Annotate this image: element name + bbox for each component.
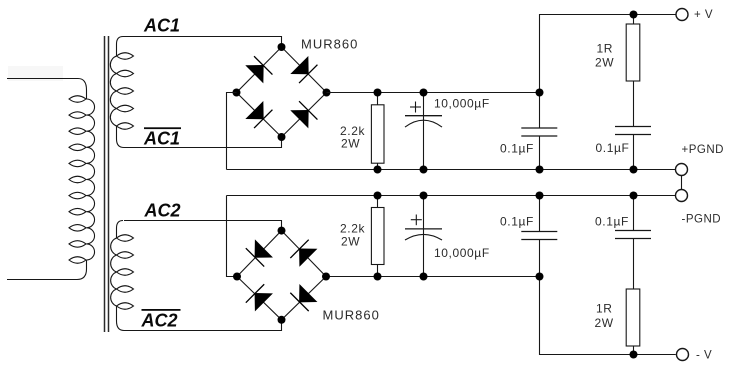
- diode D1 bridge1 top-left: [245, 56, 272, 83]
- svg-text:2W: 2W: [595, 316, 614, 330]
- junction dot R1 bottom: [374, 166, 382, 174]
- svg-text:2W: 2W: [341, 136, 360, 150]
- svg-text:0.1µF: 0.1µF: [500, 142, 534, 156]
- wire AC1-bar: [124, 137, 282, 148]
- junction dot C1 top: [420, 89, 428, 97]
- wire AC2-bar: [124, 320, 282, 331]
- svg-text:2W: 2W: [595, 56, 614, 70]
- wire positive rail section 1: [327, 92, 540, 94]
- svg-text:AC2: AC2: [144, 201, 181, 221]
- svg-text:1R: 1R: [597, 42, 614, 56]
- junction dot bridge2 left node: [233, 273, 241, 281]
- diode D6 bridge2 top-right: [290, 240, 317, 267]
- wire AC1: [123, 37, 282, 48]
- junction dot C5 bottom: [536, 273, 544, 281]
- svg-text:+ V: + V: [694, 9, 713, 21]
- diode D7 bridge2 bottom-left: [246, 284, 273, 311]
- wire bridge2 positive to -PGND rail: [227, 196, 238, 277]
- capacitor C3 0.1uF top-right: [615, 127, 651, 170]
- junction dot C5 top: [536, 192, 544, 200]
- junction dot R2 top: [374, 192, 382, 200]
- junction dot bridge2 top node: [278, 227, 286, 235]
- junction dot bridge1 left node: [233, 89, 241, 97]
- capacitor C6 0.1uF bottom-right: [615, 196, 651, 290]
- svg-text:0.1µF: 0.1µF: [595, 215, 629, 229]
- junction dot bridge1 top node: [278, 43, 286, 51]
- svg-text:AC2: AC2: [141, 311, 178, 331]
- transformer secondary winding S2: [111, 221, 134, 331]
- svg-text:0.1µF: 0.1µF: [500, 215, 534, 229]
- wire AC2: [124, 221, 282, 231]
- wire PGND link: [681, 176, 683, 190]
- junction dot C2 bottom: [536, 166, 544, 174]
- junction dot C4 bottom: [420, 273, 428, 281]
- label R1 2.2k 2W: [340, 124, 365, 150]
- svg-text:0.1µF: 0.1µF: [596, 141, 630, 155]
- junction dot bridge2 bottom node: [278, 316, 286, 324]
- label R4 1R 2W: [595, 302, 614, 331]
- capacitor C2 0.1uF top-left: [521, 93, 557, 170]
- transformer primary winding: [7, 79, 95, 280]
- bridge rectifier 1 frame: [237, 47, 327, 137]
- svg-text:AC1: AC1: [143, 128, 180, 148]
- svg-text:-PGND: -PGND: [682, 213, 722, 225]
- svg-text:10,000µF: 10,000µF: [434, 97, 490, 111]
- wire +V rail and drop: [540, 15, 676, 93]
- svg-text:- V: - V: [696, 350, 712, 362]
- junction dot C4 top: [420, 192, 428, 200]
- svg-text:2.2k: 2.2k: [340, 222, 365, 236]
- capacitor C1 10000uF: [405, 93, 442, 170]
- svg-text:MUR860: MUR860: [323, 308, 380, 323]
- svg-text:AC1: AC1: [143, 16, 180, 36]
- svg-text:1R: 1R: [596, 302, 613, 316]
- resistor R3 1R 2W: [626, 15, 640, 127]
- junction dot C2 rail1: [536, 89, 544, 97]
- transformer secondary winding S1: [110, 37, 133, 148]
- diode D3 bridge1 bottom-left: [245, 101, 272, 128]
- svg-text:+PGND: +PGND: [682, 144, 724, 156]
- junction dot R2 bottom: [374, 273, 382, 281]
- terminal +PGND: [676, 164, 688, 176]
- capacitor C4 10000uF: [405, 196, 442, 277]
- resistor R2 2.2k 2W: [371, 196, 384, 277]
- junction dot bridge1 bottom node: [278, 133, 286, 141]
- watermark remnant: [8, 66, 63, 81]
- label R3 1R 2W: [595, 42, 614, 70]
- label AC2-bar: [141, 309, 181, 331]
- junction dot bridge1 right node: [323, 89, 331, 97]
- diode D2 bridge1 top-right: [290, 56, 317, 83]
- diode D8 bridge2 bottom-right: [290, 284, 317, 311]
- junction dot R4 bottom: [630, 351, 638, 359]
- wire negative rail section 2: [326, 276, 540, 278]
- bridge rectifier 2 frame: [237, 231, 326, 320]
- svg-text:10,000µF: 10,000µF: [434, 246, 490, 260]
- label R2 2.2k 2W: [340, 222, 365, 249]
- resistor R1 2.2k 2W: [371, 93, 384, 170]
- junction dot C6 top: [630, 192, 638, 200]
- wire rail -PGND: [227, 195, 676, 197]
- wire rail +PGND: [227, 169, 676, 171]
- diode D5 bridge2 top-left: [246, 240, 273, 267]
- terminal -V: [677, 349, 689, 361]
- junction dot bridge2 right node: [322, 273, 330, 281]
- transformer core: [105, 36, 109, 332]
- wire bridge1 negative to +PGND rail: [227, 93, 237, 170]
- junction dot C1 bottom: [420, 166, 428, 174]
- svg-text:MUR860: MUR860: [301, 37, 358, 52]
- terminal +V: [676, 9, 688, 21]
- wire -V rail and rise: [540, 277, 676, 355]
- capacitor C5 0.1uF bottom-left: [521, 196, 557, 277]
- diode D4 bridge1 bottom-right: [290, 101, 317, 128]
- label AC1-bar: [143, 127, 181, 148]
- svg-text:2W: 2W: [341, 235, 360, 249]
- junction dot R3 top: [630, 11, 638, 19]
- terminal -PGND: [676, 190, 688, 202]
- resistor R4 1R 2W: [626, 289, 640, 355]
- junction dot R1 top: [374, 89, 382, 97]
- junction dot C3 bottom: [630, 166, 638, 174]
